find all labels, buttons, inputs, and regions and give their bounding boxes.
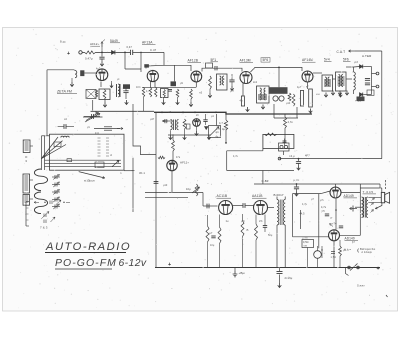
svg-text:μ14: μ14: [286, 102, 291, 105]
tube V3 AF12B: [191, 71, 202, 82]
dark box on tube3 drop: [171, 81, 177, 86]
svg-text:5F6: 5F6: [263, 58, 269, 62]
wire tube3 down: [195, 82, 197, 87]
svg-text:44,5: 44,5: [300, 213, 306, 216]
arrow on dial wires: [112, 161, 119, 167]
dark bus wire: [154, 112, 312, 114]
speaker LS1: [381, 192, 384, 202]
resistor R21 stage3c: [155, 88, 157, 98]
wire detector down: [171, 171, 173, 193]
tick mark bottom right: [386, 295, 388, 297]
discriminator winding L3: [354, 72, 356, 90]
small box right of discriminator: [367, 90, 374, 95]
wire drop x141 from antenna line: [140, 52, 142, 69]
resistor R1 under tube1: [103, 90, 106, 100]
svg-text:AA11B: AA11B: [252, 194, 263, 198]
svg-text:4μ: 4μ: [216, 136, 219, 139]
capacitor under V7: [211, 235, 215, 237]
wire V9 to bus: [335, 184, 337, 187]
small box on dial wire: [67, 159, 72, 162]
junction on AVC bus: [298, 158, 300, 160]
diagonal arrow under tuner box: [79, 172, 105, 178]
small audio box: [263, 134, 294, 148]
oscillator coil L4: [171, 120, 173, 130]
small box on diagonals: [54, 142, 61, 147]
output terminal circle bottom: [376, 85, 379, 88]
svg-text:μ,τ=ι: μ,τ=ι: [294, 179, 300, 182]
svg-text:μ7τ: μ7τ: [241, 220, 245, 223]
wire R12 to detector: [172, 151, 174, 164]
wire box to AVC bus: [283, 151, 285, 155]
dark component box NF: [269, 87, 288, 94]
capacitor on x156: [154, 181, 159, 183]
tube V1 AF12: [96, 69, 108, 81]
pointer fan diagonals: [41, 141, 62, 159]
IF can T4: [336, 72, 347, 91]
svg-text:AC11B: AC11B: [217, 194, 228, 198]
vertical tick x322: [321, 246, 323, 258]
wire y170.5 to audio: [227, 170, 294, 172]
resistor R10 beside L4: [183, 119, 186, 129]
box under tube1: [99, 89, 110, 100]
dial wire horizontal 3: [45, 166, 121, 168]
ground under C5: [125, 100, 129, 105]
dark component between tube1-2: [123, 84, 130, 89]
switch S1 bottom right: [348, 266, 351, 269]
tube V8 AA11B: [254, 201, 268, 215]
svg-text:7 & 3: 7 & 3: [40, 226, 48, 230]
svg-text:+: +: [377, 266, 380, 272]
wire D1 to node B: [116, 51, 131, 53]
staircase wire to audio box: [227, 150, 263, 152]
ground under T1: [163, 98, 165, 101]
svg-text:B.χχ: B.χχ: [60, 40, 66, 44]
small box beside R10: [186, 124, 190, 129]
svg-text:4F7: 4F7: [305, 154, 310, 158]
output terminal circle top: [376, 72, 379, 75]
wire drop x297: [296, 107, 298, 118]
box T1 under tube2-3: [161, 89, 169, 98]
switch wafer box 3: [23, 195, 30, 206]
svg-text:PO-GO-FM: PO-GO-FM: [55, 258, 117, 269]
svg-text:μ7ι: μ7ι: [320, 199, 324, 202]
ground under tube1 box: [104, 100, 106, 103]
wire tube5 down: [307, 82, 309, 89]
svg-text:μ.Θσ: μ.Θσ: [303, 238, 309, 240]
wire box to stair: [262, 149, 264, 151]
capacitor C2 series 0.47: [130, 50, 132, 55]
resistor box R9: [309, 89, 313, 107]
svg-text:ωω: ωω: [316, 93, 320, 96]
wire discriminator vertical: [371, 67, 373, 95]
svg-text:C.47: C.47: [150, 48, 157, 52]
wire grid bus stage1: [125, 69, 141, 72]
IF transformer T7 between tube3-4: [217, 74, 228, 90]
wires L4 R10 to sub bus: [170, 130, 172, 135]
svg-text:411: 411: [95, 132, 100, 135]
ground under R5: [246, 107, 250, 112]
capacitor C5 near L2: [123, 90, 128, 92]
svg-text:0,47: 0,47: [127, 45, 133, 49]
diode D5 bottom: [360, 93, 363, 97]
svg-text:C-BZ: C-BZ: [262, 179, 269, 183]
svg-text:AF12B: AF12B: [188, 59, 199, 63]
svg-text:50μ: 50μ: [268, 234, 273, 237]
brace before Batteria: [357, 249, 360, 253]
svg-text:2π: 2π: [196, 114, 199, 117]
wire junction down to NF box: [278, 67, 280, 87]
wire speaker bottom diagonal: [376, 203, 382, 209]
dark capacitor on tube2 top wire: [144, 64, 149, 67]
resistor R12 above detector: [172, 140, 175, 151]
capacitor C17 between tube3-4: [229, 79, 234, 81]
wire tube2 down: [150, 81, 152, 87]
svg-text:μ10: μ10: [163, 184, 168, 187]
dark blob in T3: [324, 79, 331, 87]
tube V7 AC11B: [219, 201, 233, 215]
resistor R11 on x226 drop: [225, 114, 227, 120]
tube V5 AF14M: [302, 71, 313, 82]
svg-text:AF14M: AF14M: [302, 58, 313, 62]
diode D4 top: [360, 65, 363, 69]
vertical text columns in tuner box: [98, 137, 101, 139]
svg-text:+Bμι: +Bμι: [239, 271, 246, 275]
wire T6 to speaker: [368, 197, 381, 199]
bottom trimmer row marks: [34, 201, 39, 203]
component 1B box on interstage wire: [206, 63, 213, 68]
wire vertical x133 above bus: [132, 104, 134, 112]
svg-text:α 12υερι: α 12υερι: [362, 250, 373, 254]
resistor R15 under V8: [241, 221, 244, 237]
wire right vertical x381.8: [381, 51, 383, 159]
svg-text:3: 3: [25, 159, 27, 163]
resistor R19 stage3a: [142, 88, 144, 98]
wire pot to audio input: [202, 193, 204, 207]
small resistor bars left of R17: [331, 251, 335, 253]
ground under T4: [339, 93, 343, 98]
svg-text:5F4: 5F4: [324, 58, 330, 62]
wire right vertical x360: [359, 184, 361, 225]
staircase wire from bus x133: [133, 112, 156, 154]
capacitor C8 on AVC bus to ground: [298, 159, 300, 161]
ground under C8: [297, 166, 301, 171]
wire x133 lower with ticks: [132, 158, 134, 212]
terminal circle on AVC bus: [278, 157, 281, 160]
svg-text:5.ππτ: 5.ππτ: [357, 284, 365, 288]
node on tube4-5 wire: [278, 67, 280, 69]
resistor box R5 under tube4: [241, 96, 244, 106]
arrow capacitor into converter: [162, 120, 172, 122]
wire V10 down to bus: [333, 241, 335, 268]
wire with bars y128.5: [94, 128, 120, 130]
capacitor C12 with arrow: [63, 124, 65, 129]
wire under stage5 horizontal: [274, 117, 298, 119]
output transformer T6: [362, 197, 364, 218]
wire bias box down: [307, 248, 309, 268]
AVC bus wire y158.6: [280, 158, 382, 160]
wire T6 primary centre: [355, 206, 362, 208]
antenna jack J1: [79, 51, 82, 54]
wire tube V8 to T5: [268, 207, 275, 209]
svg-text:+4μ3: +4μ3: [355, 99, 362, 103]
svg-text:10μ: 10μ: [186, 187, 191, 191]
svg-text:μ47: μ47: [150, 118, 155, 121]
svg-text:10μ: 10μ: [210, 244, 215, 247]
trimmer column capacitors: [52, 176, 60, 178]
svg-text:μτ: μτ: [117, 78, 120, 81]
diode circle D2: [273, 96, 278, 101]
resistor R2 small left of box: [95, 90, 97, 97]
svg-text:B.0017: B.0017: [274, 193, 284, 197]
svg-text:4,7κ: 4,7κ: [288, 120, 294, 124]
diode D1 5A49: [112, 51, 115, 55]
dark bus wire thin left part: [91, 110, 155, 112]
node B junction: [124, 52, 126, 54]
svg-text:5A49: 5A49: [110, 39, 118, 43]
phase arrow component: [350, 208, 358, 210]
resistor R17 right column: [339, 246, 342, 256]
left double vertical wires: [41, 136, 43, 170]
diode D6 small: [205, 127, 209, 130]
capacitor C10: [203, 119, 207, 121]
wire V9 emitter down to V10: [335, 199, 337, 230]
capacitor C16 under V8: [263, 225, 267, 227]
wire plate tube3 to tube4: [202, 68, 242, 71]
wire down at x164: [163, 52, 165, 65]
svg-text:10π: 10π: [136, 86, 141, 89]
wire x292.5 vertical: [292, 194, 294, 237]
switch wafer box 2: [23, 174, 30, 193]
wire x360 vertical extend: [359, 225, 361, 236]
svg-text:4μ: 4μ: [240, 99, 244, 103]
junction on audio bus: [296, 183, 298, 185]
wire audio bus down right: [379, 184, 381, 188]
resistor R16 under V8: [255, 224, 258, 240]
small trimmer cluster below coils: [43, 214, 45, 218]
resistor R22 chain x285: [284, 114, 286, 117]
node A junction: [101, 52, 103, 54]
ground under L8: [71, 78, 73, 82]
svg-text:4μ7: 4μ7: [96, 68, 101, 71]
wire drop x96: [95, 111, 97, 117]
arrow on CAT line: [349, 50, 356, 52]
switch wafer box 1: [23, 140, 30, 153]
svg-text:AF11÷: AF11÷: [180, 161, 189, 165]
bracket below wafer boxes: [25, 202, 27, 227]
svg-text:μτ3: μτ3: [354, 61, 359, 64]
wire top frame to speaker: [360, 187, 382, 189]
svg-text:1,5Ω: 1,5Ω: [331, 256, 337, 259]
wire switch to plus: [359, 267, 375, 269]
bias arrow at V10: [330, 224, 334, 227]
svg-text:T.045: T.045: [363, 190, 374, 194]
svg-text:st.Øμωιι: st.Øμωιι: [84, 179, 95, 183]
variable capacitor arrow top: [84, 116, 100, 118]
dark box before tube1 base: [80, 70, 84, 76]
volume pot cluster: [195, 184, 198, 196]
svg-text:×4,μ: ×4,μ: [289, 154, 295, 158]
dial wire horizontal 1: [45, 159, 121, 161]
svg-text:C.A.T: C.A.T: [337, 50, 346, 54]
wire x156 bus down to bottom bus: [155, 112, 157, 267]
svg-text:AF13M: AF13M: [240, 59, 251, 63]
long vertical x318.8: [318, 194, 320, 249]
svg-text:0,5Ω: 0,5Ω: [303, 241, 309, 244]
wire base feed V9: [293, 193, 322, 195]
wire discriminator top: [346, 66, 354, 68]
audio B+ bus: [254, 183, 380, 185]
svg-text:μτ7: μτ7: [230, 90, 235, 93]
svg-text:ZETA FM: ZETA FM: [56, 90, 72, 94]
capacitor near V10: [339, 225, 343, 227]
coil meander L7: [34, 192, 47, 214]
wire C2 to tube2 area: [133, 51, 164, 53]
svg-text:AF12÷: AF12÷: [90, 42, 100, 46]
wire tube4 down to R5: [242, 83, 244, 96]
wire tuner to x133: [124, 170, 133, 172]
resistor on audio box top: [265, 133, 277, 136]
small box on dial wire 2: [95, 162, 104, 168]
tube V6 AF11 detector: [167, 160, 177, 170]
ticks boxes to coils: [30, 145, 33, 147]
wire plate tube2 to tube3: [146, 65, 191, 71]
thermistor circle: [314, 251, 322, 259]
IF transformer T2 under tube4-5: [257, 86, 270, 103]
ground under R4: [190, 99, 192, 102]
resistor box R8: [300, 91, 303, 107]
electrolytic cap bottom: [279, 268, 281, 272]
svg-text:6-12v: 6-12v: [119, 258, 147, 269]
ground under electrolytic: [278, 283, 282, 288]
ground under tube1 right leg: [111, 81, 113, 84]
junction dot end of R11 wire: [225, 142, 227, 144]
svg-text:μτι: μτι: [87, 126, 91, 129]
capacitor C1 to ground: [101, 52, 103, 56]
dashed antenna lead: [385, 180, 387, 189]
coil L5 small: [61, 136, 69, 137]
wire T3 to T4: [333, 78, 336, 80]
svg-text:AUTO-RADIO: AUTO-RADIO: [45, 241, 131, 253]
wire box to tube1: [84, 72, 96, 74]
output tube V10 AD149 bottom: [329, 230, 340, 241]
dark cluster under discriminator relocated: [357, 97, 365, 102]
capacitor C7 discriminator: [365, 78, 370, 80]
wire tube1 cathode down: [100, 82, 102, 88]
ground arrow under T2: [261, 105, 265, 110]
svg-text:AF13A: AF13A: [142, 40, 153, 44]
capacitor in audio box: [284, 139, 286, 147]
ground under R9: [309, 109, 313, 114]
svg-text:+: +: [168, 262, 171, 268]
resistor R4 stage4: [190, 89, 193, 99]
diode circle D3: [279, 96, 284, 101]
svg-text:5F6: 5F6: [343, 58, 349, 62]
svg-text:AD149: AD149: [344, 194, 354, 198]
wire x300.5 short: [300, 210, 302, 229]
wire x47 tube1 grid down to tuner: [46, 70, 48, 136]
svg-text:4.7κ: 4.7κ: [216, 128, 222, 131]
small component between output tubes: [325, 213, 329, 215]
rail under tube2: [142, 86, 196, 88]
wire audio left entry: [203, 205, 218, 207]
hook below bus at switch: [346, 268, 349, 276]
capacitor C4 on interstage wire: [214, 66, 216, 70]
resistor R13 under V7: [206, 226, 209, 242]
svg-text:4,7: 4,7: [146, 90, 150, 93]
ground arrows under converter: [169, 135, 173, 140]
svg-text:2κ2: 2κ2: [253, 81, 258, 84]
wire V9 collector to T6: [341, 192, 360, 194]
wire T5 down: [276, 225, 278, 268]
bottom supply bus: [155, 267, 380, 269]
sub bus under converter: [168, 134, 211, 136]
wire tube5 to T3: [313, 72, 322, 74]
bias box with text: [302, 240, 314, 248]
wire L1 to node: [96, 51, 112, 53]
coil L2 between tube1-2: [118, 84, 120, 97]
wire node B down to grid bus: [124, 52, 126, 69]
wire x262.9 down to audio bus: [262, 171, 264, 185]
svg-text:3F-1: 3F-1: [139, 171, 145, 175]
tuner box outline: [50, 134, 125, 170]
ground below C1: [100, 62, 104, 67]
ground under T3: [324, 93, 328, 98]
wire horizontal y197.7: [145, 197, 188, 199]
converter transistor Q1: [193, 119, 201, 127]
svg-text:4μ7: 4μ7: [297, 86, 302, 89]
capacitor C14 input: [206, 204, 208, 209]
svg-text:47κ: 47κ: [176, 156, 181, 159]
wire under tube2 row to bus: [143, 97, 145, 111]
wire horizontal y192.5: [145, 192, 203, 194]
resistor R18 between tube3-4: [209, 76, 212, 89]
svg-text:A.TER: A.TER: [362, 54, 372, 58]
ground on bottom bus: [234, 268, 236, 272]
junction dots on dark bus: [161, 111, 163, 113]
tube V2 AF13: [147, 70, 158, 81]
dial wire horizontal 2: [45, 162, 121, 164]
box with circles component: [279, 143, 290, 151]
resistor R14 under V7: [218, 227, 221, 244]
wire plate tube4 to tube5: [251, 67, 303, 72]
svg-text:4,7μ: 4,7μ: [302, 203, 308, 206]
capacitor C6 stage3: [168, 89, 172, 91]
antenna mast mark above node A: [101, 42, 103, 52]
svg-text:5F1: 5F1: [211, 58, 217, 62]
coupling capacitor C15: [242, 203, 244, 208]
wire T4 to discriminator: [346, 78, 352, 80]
coil L1 BAM: [85, 51, 96, 54]
arrow pair right of T6: [371, 203, 374, 206]
IF can T3: [322, 75, 333, 91]
resistor R6 zigzag stage5: [288, 93, 291, 101]
junction V9 emitter: [335, 209, 337, 211]
wire box to bus: [92, 100, 94, 111]
transformer box with X under tube1: [86, 90, 96, 99]
wire CAT to right edge: [355, 50, 382, 52]
ground under Q1: [196, 126, 198, 131]
capacitor C13 on audio bus: [296, 184, 298, 187]
wire R12 top: [172, 134, 174, 140]
ground under R3: [177, 98, 179, 101]
wire base feed V10: [293, 236, 329, 238]
svg-text:4,7κ: 4,7κ: [233, 155, 239, 158]
wire drop x274: [273, 104, 275, 118]
wire V10 collector to T6: [340, 234, 361, 236]
wire drop x216.5: [216, 114, 218, 126]
scan speckle noise: [9, 29, 397, 308]
svg-text:4,7κ: 4,7κ: [321, 206, 327, 209]
